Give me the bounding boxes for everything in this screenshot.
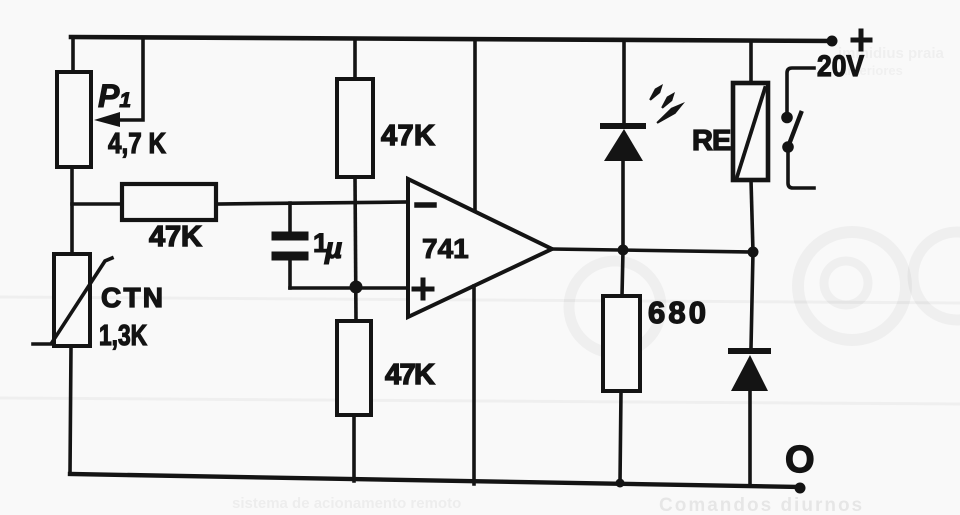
svg-text:4,7 K: 4,7 K — [108, 128, 166, 160]
potentiometer P1 body — [57, 72, 91, 167]
svg-text:O: O — [785, 439, 815, 481]
switch blade — [788, 113, 801, 147]
switch contact bottom hook — [788, 152, 814, 188]
svg-text:680: 680 — [648, 295, 706, 330]
svg-text:sistema de acionamento remoto: sistema de acionamento remoto — [232, 495, 461, 512]
wire diode branch — [750, 252, 753, 486]
resistor 47K bottom divider — [337, 321, 371, 415]
node junction non-inverting — [350, 281, 363, 294]
wire P1 wiper from rail — [120, 39, 143, 120]
P1 wiper arrow — [94, 112, 120, 127]
svg-text:Comandos diurnos: Comandos diurnos — [659, 495, 864, 515]
svg-text:RE: RE — [692, 125, 731, 157]
svg-text:47K: 47K — [385, 359, 435, 391]
wire inverting input net — [72, 202, 408, 204]
wire output net — [552, 249, 753, 252]
relay RE coil body — [733, 83, 768, 180]
svg-text:47K: 47K — [381, 120, 435, 152]
wire divider middle crossing — [355, 177, 356, 321]
svg-text:47K: 47K — [149, 221, 202, 253]
diode D2 triangle — [731, 355, 768, 391]
relay RE diagonal — [737, 88, 765, 177]
node output junction relay — [748, 247, 759, 258]
LED D1 cathode bar — [603, 123, 643, 129]
node switch bottom contact — [782, 141, 794, 153]
wire bottom divider to rail — [352, 415, 356, 481]
node + terminal dot — [827, 36, 838, 47]
capacitor C1 leads — [288, 203, 292, 288]
wire 680 branch — [620, 250, 623, 483]
label + polarity — [853, 31, 870, 49]
thermistor CTN diagonal stroke — [33, 258, 112, 344]
thermistor CTN body — [54, 254, 90, 346]
wire op-amp V+ from rail — [473, 40, 477, 211]
switch contact top hook — [787, 68, 814, 112]
node output junction LED — [618, 245, 629, 256]
svg-text:1,3K: 1,3K — [99, 320, 147, 352]
capacitor C1 plates — [276, 236, 304, 256]
wire relay branch from rail — [749, 41, 753, 83]
wire LED to output — [621, 161, 625, 250]
op-amp U1 741 triangle — [408, 179, 552, 317]
wire top supply rail — [71, 37, 834, 41]
wire bottom return rail — [70, 474, 802, 487]
label minus pin — [417, 202, 434, 208]
diode D2 cathode bar — [731, 348, 768, 354]
resistor 47K top divider — [337, 79, 373, 177]
LED D1 triangle — [604, 129, 643, 161]
wire relay to output — [751, 180, 753, 252]
node switch top contact — [781, 112, 793, 124]
svg-text:741: 741 — [422, 233, 469, 264]
wire top divider from rail — [353, 41, 357, 79]
svg-text:CTN: CTN — [101, 282, 163, 313]
resistor 680 — [603, 296, 640, 391]
label plus pin — [414, 280, 432, 298]
wire LED branch from rail — [622, 41, 626, 123]
svg-text:µ: µ — [324, 232, 342, 265]
node 680 to rail junction — [616, 479, 625, 488]
wire op-amp V- to rail — [472, 286, 476, 484]
resistor 47K series — [122, 184, 216, 220]
wire non-inverting input net — [290, 286, 408, 290]
node 0 terminal dot — [795, 483, 806, 494]
wire left branch vertical — [70, 39, 73, 474]
svg-text:20V: 20V — [817, 50, 864, 83]
LED D1 light rays — [649, 84, 685, 124]
